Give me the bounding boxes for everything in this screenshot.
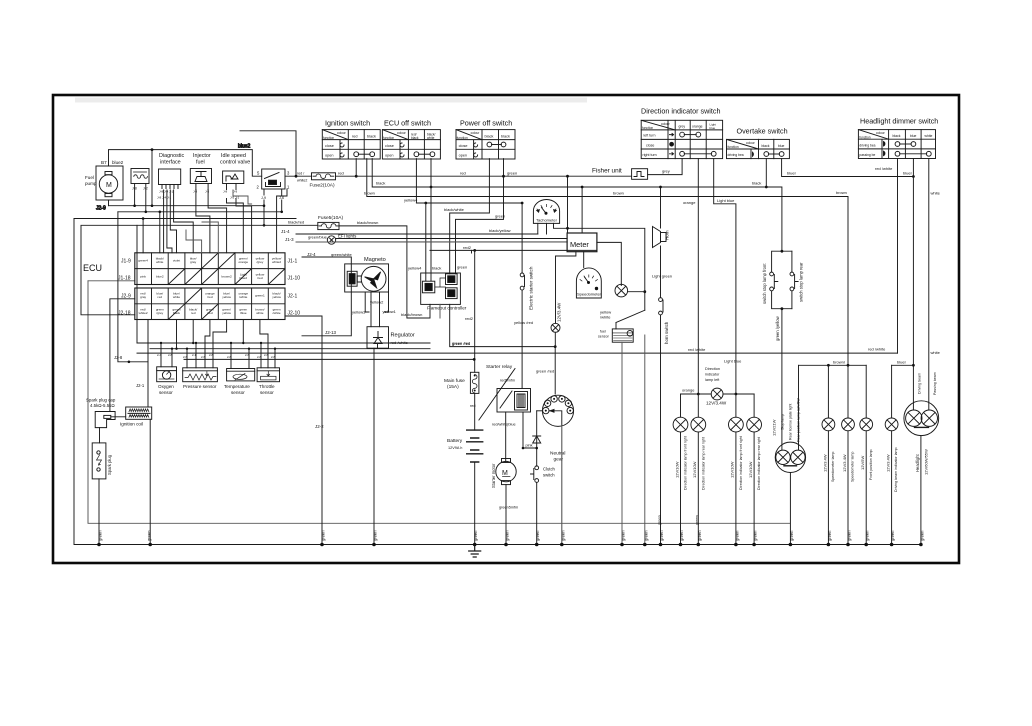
svg-text:grey: grey — [662, 169, 670, 174]
wire overtake blue — [782, 159, 914, 177]
direction indicator lamp front left — [673, 394, 688, 545]
diagram frame — [53, 95, 959, 563]
svg-text:function: function — [859, 135, 870, 139]
svg-text:green/blue: green/blue — [308, 235, 328, 240]
oxygen sensor — [157, 367, 177, 395]
svg-text:Pressure sensor: Pressure sensor — [183, 384, 217, 389]
svg-text:ECU off switch: ECU off switch — [384, 119, 431, 128]
diagnostic interface — [157, 153, 184, 200]
svg-text:close: close — [459, 144, 468, 148]
svg-text:J-2: J-2 — [143, 187, 148, 191]
svg-text:colour: colour — [471, 131, 481, 135]
svg-text:yellow: yellow — [222, 311, 231, 315]
svg-text:green: green — [919, 530, 924, 541]
svg-text:Injector: Injector — [193, 153, 211, 159]
svg-text:white: white — [156, 260, 164, 264]
svg-text:green: green — [847, 530, 852, 541]
wire jog extra 3 — [186, 230, 202, 253]
svg-text:yellow4: yellow4 — [408, 266, 422, 271]
ground bus junction dots — [97, 543, 923, 547]
svg-text:J2-8: J2-8 — [114, 355, 123, 360]
svg-text:Horn: Horn — [665, 230, 670, 240]
svg-text:green: green — [697, 530, 702, 541]
pressure sensor — [183, 368, 218, 389]
svg-text:red: red — [158, 295, 163, 299]
svg-text:green: green — [505, 530, 510, 541]
svg-text:12V/21W: 12V/21W — [772, 419, 777, 436]
svg-text:green: green — [753, 530, 758, 541]
svg-text:black: black — [432, 266, 441, 271]
svg-text:2-6: 2-6 — [264, 353, 268, 357]
svg-text:/blue: /blue — [240, 311, 247, 315]
pin labels sensors — [157, 353, 275, 359]
svg-text:Neutral: Neutral — [550, 451, 565, 457]
svg-text:sensor: sensor — [159, 390, 173, 395]
wire direction orange drop — [697, 159, 699, 394]
svg-text:12V/3.4W: 12V/3.4W — [842, 454, 847, 472]
svg-text:J1-18: J1-18 — [118, 276, 131, 282]
direction indicator lamp rear left — [691, 394, 706, 545]
wire hline J2-9 — [109, 205, 265, 207]
svg-text:orange: orange — [692, 125, 703, 129]
svg-text:J2-9: J2-9 — [121, 294, 131, 300]
svg-text:white: white — [256, 311, 264, 315]
svg-text:Light blue: Light blue — [717, 198, 735, 203]
svg-text:black/brown: black/brown — [357, 220, 378, 225]
svg-text:green: green — [147, 530, 152, 541]
wire red feed — [336, 175, 632, 177]
starter relay K2 — [479, 364, 531, 427]
wire red/white long — [137, 352, 898, 354]
wire front lamps bus — [681, 393, 755, 395]
svg-text:12V/3.4W: 12V/3.4W — [557, 302, 562, 322]
svg-text:/white: /white — [273, 311, 281, 315]
svg-text:violet: violet — [173, 259, 180, 263]
driving beam indicator lamp — [885, 365, 898, 544]
svg-text:12V/10W: 12V/10W — [692, 461, 697, 478]
connector CN1 — [131, 169, 149, 212]
wire left feed J1-18 — [88, 280, 135, 282]
wire web above ECU — [142, 219, 144, 253]
svg-text:blue2: blue2 — [112, 160, 124, 165]
svg-text:Stop lamp: Stop lamp — [781, 414, 785, 430]
svg-text:sensor: sensor — [598, 335, 610, 339]
svg-text:J-8 J-4 J-1: J-8 J-4 J-1 — [157, 196, 172, 200]
svg-text:yellow /red: yellow /red — [514, 320, 533, 325]
wire hline sensor feed B — [150, 348, 430, 350]
svg-text:2-4: 2-4 — [157, 353, 161, 357]
svg-text:red /white: red /white — [875, 166, 893, 171]
svg-text:black: black — [501, 135, 510, 139]
wire green — [456, 159, 504, 274]
wire J2-8 to ignition coil — [118, 212, 148, 362]
svg-text:Tachometer: Tachometer — [536, 218, 558, 223]
rear combination lamp — [772, 365, 806, 544]
svg-text:sensor: sensor — [231, 390, 245, 395]
svg-text:driving bea: driving bea — [859, 143, 875, 147]
svg-text:passing be: passing be — [859, 153, 875, 157]
wire flameout bottoms — [439, 304, 441, 318]
svg-text:Direction indicator lamp rear: Direction indicator lamp rear right — [757, 437, 761, 490]
svg-text:green: green — [507, 171, 517, 176]
svg-text:Meter: Meter — [570, 240, 589, 249]
wire red2 to main fuse — [430, 249, 597, 251]
svg-text:green: green — [621, 530, 626, 541]
svg-text:J-9: J-9 — [233, 190, 237, 194]
svg-text:/grey: /grey — [256, 260, 263, 264]
speedometer M2 — [576, 252, 601, 298]
svg-text:white2: white2 — [297, 179, 307, 183]
node blue2 junction — [151, 148, 154, 151]
svg-text:Clutch: Clutch — [543, 467, 556, 472]
fisher unit U2 — [592, 159, 682, 180]
svg-text:orange: orange — [683, 200, 696, 205]
wire ignition coil column — [148, 320, 150, 545]
throttle sensor — [257, 368, 279, 395]
svg-text:J-8 J-4 J-1: J-8 J-4 J-1 — [159, 190, 174, 194]
svg-text:function: function — [642, 126, 653, 130]
svg-text:Light blue: Light blue — [724, 359, 742, 364]
svg-text:Driving beam: Driving beam — [918, 373, 922, 394]
horn switch S2 — [659, 298, 669, 545]
svg-text:Power off switch: Power off switch — [460, 119, 512, 128]
spark plug — [92, 428, 112, 545]
svg-text:Direction indicator switch: Direction indicator switch — [641, 107, 721, 116]
headlight — [904, 372, 939, 544]
svg-text:J-8: J-8 — [132, 187, 137, 191]
wire EFI to meter — [336, 238, 567, 240]
speedometer lamp 1 — [822, 365, 835, 544]
svg-text:green /red: green /red — [452, 341, 470, 346]
svg-text:fuel: fuel — [196, 160, 205, 166]
svg-text:J1-4: J1-4 — [281, 229, 290, 234]
main fuse (15A) F1 — [444, 372, 479, 430]
svg-text:brown: brown — [364, 191, 375, 196]
svg-text:yellow: yellow — [272, 295, 281, 299]
wire blue lamp bus — [892, 364, 914, 366]
svg-text:J-8: J-8 — [193, 190, 197, 194]
svg-text:red: red — [338, 170, 344, 175]
svg-text:black: black — [893, 134, 901, 138]
node red-ignition — [355, 175, 358, 178]
svg-text:red2: red2 — [465, 316, 474, 321]
wire black/red to fuse5 — [81, 224, 318, 226]
wire blue2 top loop — [109, 150, 262, 177]
svg-text:/grey: /grey — [156, 311, 163, 315]
magneto G1 — [345, 257, 389, 292]
wire dimmer blue to headlight — [912, 159, 914, 410]
electric starter switch S1 — [520, 202, 533, 389]
svg-text:Oxygen: Oxygen — [158, 384, 174, 389]
svg-text:/red: /red — [207, 295, 213, 299]
switch stop lamp rear S4 — [790, 251, 804, 309]
svg-text:black: black — [173, 311, 181, 315]
wire from blue2 node — [151, 150, 153, 206]
svg-text:green: green — [373, 530, 378, 541]
svg-text:orange: orange — [682, 388, 695, 393]
svg-text:Fuse5(10A): Fuse5(10A) — [318, 215, 343, 221]
svg-text:Throttle: Throttle — [259, 384, 275, 389]
svg-text:function: function — [383, 136, 394, 140]
fuel gauge lamp — [597, 242, 646, 310]
svg-text:white: white — [925, 134, 933, 138]
svg-text:yellow4: yellow4 — [404, 197, 418, 202]
svg-text:black/red: black/red — [288, 220, 304, 225]
svg-text:12V/10W: 12V/10W — [730, 461, 735, 478]
wire yellow2 pair to regulator — [371, 292, 380, 327]
svg-text:black/white: black/white — [444, 207, 465, 212]
idle speed control valve — [220, 153, 250, 200]
svg-text:sensor: sensor — [260, 390, 274, 395]
svg-text:2-1: 2-1 — [192, 353, 196, 357]
svg-text:white: white — [931, 191, 941, 196]
svg-text:green: green — [827, 530, 832, 541]
svg-text:2-8: 2-8 — [257, 355, 261, 359]
injector fuel — [190, 153, 211, 194]
svg-text:function: function — [457, 136, 468, 140]
svg-text:yellow3: yellow3 — [352, 310, 366, 315]
svg-text:green: green — [789, 530, 794, 541]
svg-text:red2: red2 — [463, 245, 472, 250]
svg-text:Fisher unit: Fisher unit — [592, 168, 622, 175]
svg-text:/red: /red — [257, 276, 263, 280]
svg-text:red: red — [460, 171, 466, 176]
svg-text:B7: B7 — [101, 160, 107, 165]
svg-text:pink: pink — [526, 443, 533, 447]
front position lamp — [860, 365, 873, 544]
svg-text:colour: colour — [397, 131, 407, 135]
svg-text:control valve: control valve — [220, 160, 250, 166]
svg-text:colour: colour — [661, 122, 671, 126]
gray return wire — [88, 281, 790, 524]
J1 cell texts — [138, 257, 281, 280]
svg-text:Speedometer lamp: Speedometer lamp — [851, 452, 855, 482]
svg-text:blue: blue — [910, 134, 917, 138]
svg-text:function: function — [728, 145, 739, 149]
wire overtake black — [765, 159, 767, 187]
wire hline second — [118, 211, 282, 213]
svg-text:J2-1: J2-1 — [288, 294, 298, 300]
svg-text:open: open — [459, 154, 467, 158]
svg-text:driving bea: driving bea — [728, 153, 744, 157]
wire brown lamp bus — [799, 364, 867, 366]
battery BT1 — [447, 430, 483, 544]
svg-text:black/brown: black/brown — [401, 312, 422, 317]
svg-text:Direction indicator lamp front: Direction indicator lamp front right — [739, 436, 743, 490]
svg-text:Spark plug: Spark plug — [107, 454, 112, 475]
wire yellow4 — [416, 159, 522, 203]
svg-text:Front position lamp: Front position lamp — [869, 449, 873, 480]
svg-text:gray: gray — [140, 295, 146, 299]
ignition switch — [322, 119, 380, 160]
svg-text:green /red: green /red — [536, 369, 554, 374]
svg-text:open: open — [325, 154, 333, 158]
svg-text:brown2: brown2 — [222, 275, 232, 279]
svg-text:Direction: Direction — [705, 367, 720, 371]
svg-text:ECU: ECU — [83, 263, 102, 273]
wire green labels mid right — [658, 515, 700, 525]
svg-text:green: green — [734, 530, 739, 541]
node dots left — [133, 204, 283, 226]
svg-text:green1: green1 — [255, 294, 265, 298]
svg-text:function: function — [323, 136, 334, 140]
fuse F5 Fuse5(10A) — [318, 215, 379, 230]
wire fuse5 to flameout — [339, 226, 430, 318]
svg-text:green: green — [560, 530, 565, 541]
wire red2 drop right — [471, 250, 473, 253]
svg-text:Diagnostic: Diagnostic — [159, 153, 184, 159]
svg-text:J2-9: J2-9 — [96, 206, 106, 212]
svg-text:green: green — [890, 530, 895, 541]
svg-text:Temperature: Temperature — [224, 384, 250, 389]
svg-text:green: green — [643, 530, 648, 541]
svg-text:Regulator: Regulator — [391, 333, 415, 339]
wire direction light blue drop — [714, 159, 736, 394]
wire J1-4 black/yellow — [296, 233, 538, 235]
wire web below ECU to sensors — [161, 343, 172, 367]
svg-text:Speedometer lamp: Speedometer lamp — [831, 452, 835, 482]
wire meter top feeds — [567, 176, 569, 233]
wire green/yellow to stop lamp — [781, 309, 783, 450]
svg-text:12V/3.4W: 12V/3.4W — [886, 454, 891, 472]
wire left feed J2-18 — [81, 226, 135, 315]
svg-text:black: black — [485, 135, 494, 139]
svg-text:12V/3.4W: 12V/3.4W — [706, 401, 727, 406]
svg-text:yellow1: yellow1 — [383, 309, 397, 314]
svg-text:2-6: 2-6 — [245, 353, 249, 357]
svg-text:J1-3: J1-3 — [285, 237, 294, 242]
direction indicator lamp left (panel) — [705, 367, 727, 406]
svg-text:white: white — [931, 350, 941, 355]
svg-text:black/yellow: black/yellow — [489, 228, 511, 233]
svg-text:Spark plug cap: Spark plug cap — [86, 398, 116, 403]
svg-text:grey: grey — [679, 125, 686, 129]
svg-text:horn switch: horn switch — [664, 321, 669, 344]
svg-text:Rear license plate light: Rear license plate light — [789, 404, 793, 440]
wire feed B2 — [184, 358, 474, 360]
svg-text:12V/60W/55W: 12V/60W/55W — [924, 449, 929, 475]
svg-text:indicator: indicator — [705, 373, 720, 377]
svg-text:12V/10W: 12V/10W — [748, 461, 753, 478]
svg-text:green: green — [457, 265, 467, 270]
ECU off switch — [382, 119, 440, 160]
svg-text:fuel: fuel — [600, 330, 606, 334]
svg-text:blue2: blue2 — [156, 275, 164, 279]
svg-text:black: black — [752, 181, 761, 186]
svg-text:J-9: J-9 — [261, 196, 266, 200]
svg-text:Headlight dimmer switch: Headlight dimmer switch — [860, 117, 938, 126]
relay K1 — [257, 169, 312, 225]
svg-text:red /: red / — [297, 172, 304, 176]
svg-text:Headlight: Headlight — [915, 453, 920, 472]
svg-text:green: green — [98, 530, 103, 541]
svg-text:red /white: red /white — [868, 346, 886, 351]
svg-text:Idle speed: Idle speed — [221, 153, 246, 159]
svg-text:red/white|blue: red/white|blue — [492, 423, 516, 427]
svg-text:J1-10: J1-10 — [288, 276, 301, 282]
svg-text:black: black — [376, 181, 385, 186]
horn H1 — [652, 186, 672, 298]
fuel pump — [85, 160, 124, 206]
svg-text:green: green — [535, 530, 540, 541]
power off switch — [456, 119, 515, 160]
svg-text:Direction indicator lamp front: Direction indicator lamp front right — [684, 436, 688, 490]
svg-text:blue: blue — [778, 144, 785, 148]
svg-text:Driving beam indicator lamp: Driving beam indicator lamp — [894, 447, 898, 492]
svg-text:Battery: Battery — [447, 438, 463, 444]
svg-text:gray: gray — [190, 260, 196, 264]
wire left hline 218 — [74, 218, 296, 220]
svg-text:green: green — [865, 530, 870, 541]
wire jog extra 2 — [202, 222, 218, 253]
speedometer lamp 2 — [842, 365, 855, 544]
svg-text:red /white: red /white — [688, 347, 706, 352]
svg-text:switch: switch — [543, 473, 555, 478]
svg-text:left turn: left turn — [644, 134, 656, 138]
svg-text:green/white: green/white — [331, 252, 352, 257]
wire brown bus — [367, 159, 848, 366]
wire dimmer white to headlight — [928, 159, 930, 410]
faded header smudge — [75, 98, 587, 103]
svg-text:bluel: bluel — [787, 170, 796, 175]
direction indicator switch — [641, 107, 723, 159]
svg-text:white: white — [427, 136, 435, 140]
svg-text:2-8: 2-8 — [271, 355, 275, 359]
svg-text:green: green — [495, 214, 505, 219]
svg-text:switch stop lamp front: switch stop lamp front — [762, 263, 767, 304]
svg-text:green /yellow: green /yellow — [775, 315, 780, 341]
svg-text:M: M — [106, 182, 112, 189]
svg-text:J-8: J-8 — [223, 190, 227, 194]
svg-text:white2: white2 — [139, 311, 148, 315]
svg-text:colour: colour — [876, 131, 886, 135]
svg-text:orange: orange — [238, 260, 248, 264]
svg-text:2-8: 2-8 — [209, 353, 213, 357]
ECU connector J1 grid — [118, 253, 300, 285]
svg-text:white2: white2 — [272, 260, 281, 264]
svg-text:yellow2: yellow2 — [370, 300, 384, 305]
svg-text:green5mfm: green5mfm — [499, 506, 518, 510]
svg-text:Ignition coil: Ignition coil — [120, 422, 143, 427]
direction indicator lamp rear right — [747, 394, 762, 545]
ground — [469, 545, 481, 558]
svg-text:Magneto: Magneto — [364, 257, 386, 263]
ECU connector J2 grid — [118, 288, 300, 320]
wire magneto outline down — [365, 292, 388, 312]
svg-text:J-6: J-6 — [279, 196, 284, 200]
svg-text:pink: pink — [140, 275, 146, 279]
svg-text:Main fuse: Main fuse — [444, 378, 465, 384]
svg-text:green: green — [321, 530, 326, 541]
fuel sensor — [598, 310, 645, 545]
svg-text:J2-4: J2-4 — [307, 252, 316, 257]
svg-text:white: white — [173, 295, 181, 299]
svg-text:/white: /white — [600, 315, 611, 320]
wire J2-4 green/white to magneto — [302, 257, 351, 336]
svg-text:J2-18: J2-18 — [118, 311, 131, 317]
svg-text:Starter motor: Starter motor — [491, 463, 496, 488]
wire J1-3 — [296, 241, 567, 243]
svg-text:J1-9: J1-9 — [121, 259, 131, 265]
flameout controller U4 — [421, 273, 467, 311]
svg-text:open: open — [385, 154, 393, 158]
svg-text:12V/3.4W: 12V/3.4W — [822, 454, 827, 472]
svg-text:lamp left: lamp left — [705, 378, 720, 382]
svg-text:/red: /red — [207, 311, 213, 315]
svg-text:Passing beam: Passing beam — [933, 372, 937, 395]
svg-text:J2-2: J2-2 — [315, 424, 324, 429]
svg-text:black: black — [367, 135, 376, 139]
